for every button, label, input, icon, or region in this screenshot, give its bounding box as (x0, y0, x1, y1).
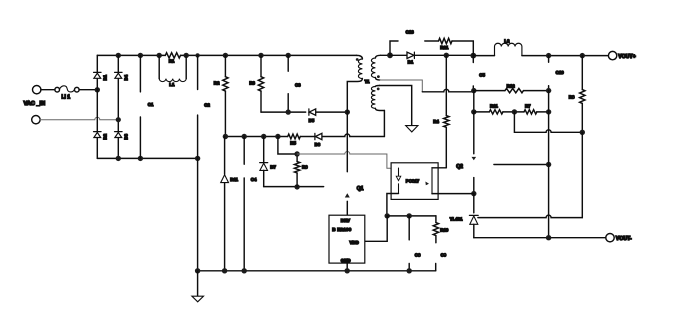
terminal VOUT- (606, 234, 614, 242)
wire Q1 source to IC DRV pin (346, 201, 348, 215)
capacitor C10 (548, 56, 550, 91)
diode D11 (triangle) (221, 175, 229, 183)
svg-text:B E2100: B E2100 (332, 227, 352, 232)
wire D1 anode (390, 54, 407, 56)
node R4 top (444, 53, 449, 58)
wire aux rail y136 (R2 bottom to D6 to aux winding, hop over Q1 drain line) (225, 134, 384, 137)
svg-text:PC817: PC817 (406, 179, 420, 184)
transistor Q2 (source line) (473, 178, 475, 194)
svg-text:R5: R5 (290, 141, 296, 146)
svg-text:C5: C5 (479, 72, 485, 77)
svg-text:L2: L2 (504, 39, 510, 44)
wire bottom rail (198, 270, 436, 272)
wire VOUT- rail (474, 237, 606, 239)
svg-text:VOUT-: VOUT- (616, 236, 632, 242)
capacitor C9 (435, 264, 437, 271)
transformer T1 secondary winding 1 (371, 55, 380, 80)
node aux rail / C4 (242, 134, 247, 139)
bridge right column wire (117, 55, 119, 158)
diode D5 (309, 109, 316, 115)
svg-text:T1: T1 (365, 79, 371, 84)
svg-text:D6: D6 (315, 142, 321, 147)
wire aux winding lead down (383, 111, 385, 137)
svg-text:R11: R11 (490, 103, 498, 108)
wire terminal2 to bridge right column (hop over left column) (40, 117, 118, 119)
node Q2 source / opto emitter (471, 191, 476, 196)
wire x548 column (R12 node to VOUT- rail) (548, 91, 550, 238)
wire R6 branch from aux rail (278, 137, 297, 155)
svg-text:R7: R7 (525, 103, 531, 108)
node top rail / R3 (258, 53, 263, 58)
fuse LI1 (55, 86, 79, 92)
terminal VOUT+ (608, 51, 616, 59)
wire secondary2 top to secondary ground (380, 86, 412, 126)
node top rail / L1 right (184, 53, 189, 58)
resistor R21 (439, 38, 452, 43)
svg-text:C1: C1 (148, 102, 154, 107)
svg-text:C6: C6 (415, 252, 421, 257)
resistor R10 (433, 216, 438, 243)
ground (secondary, open arrow) (406, 126, 418, 132)
optocoupler U2 box (391, 163, 438, 200)
svg-text:D2: D2 (103, 133, 108, 139)
svg-text:C13: C13 (406, 30, 415, 35)
wire VOUT+ rail with L2 (473, 55, 608, 57)
svg-text:C2: C2 (204, 103, 210, 108)
svg-text:D7: D7 (270, 164, 276, 169)
wire IC GND pin (346, 263, 348, 271)
node aux rail / D7 (261, 134, 266, 139)
svg-text:R2: R2 (214, 80, 220, 85)
node R6 top / gate wire (294, 151, 299, 156)
wire top rail right of R1 to transformer primary (181, 54, 357, 56)
secondary1 phase dot (377, 75, 380, 78)
resistor R2 (223, 55, 228, 136)
node R7 right / C10 column (546, 109, 551, 114)
svg-text:D11: D11 (230, 177, 238, 182)
svg-text:VOUT+: VOUT+ (618, 54, 635, 60)
transistor Q2 (drain line) (473, 112, 475, 154)
capacitor C5 (472, 56, 474, 91)
svg-text:C4: C4 (251, 177, 257, 182)
wire D1 cathode to L2 node (414, 54, 473, 56)
capacitor C6 (408, 216, 410, 271)
node bridge bottom / C2 column (195, 156, 200, 161)
svg-text:TL431: TL431 (450, 217, 463, 222)
opto transistor bar right (431, 168, 433, 194)
svg-text:C3: C3 (295, 82, 301, 87)
wire R8 bottom down to TL431 ref row (478, 132, 582, 217)
wire top rail left segment (97, 54, 165, 56)
wire secondary1 top to D1 node (381, 54, 391, 56)
diode D6 (315, 133, 322, 139)
svg-text:R8: R8 (569, 95, 575, 100)
node top rail / C1 (138, 53, 143, 58)
node R8 top (580, 53, 585, 58)
opto LED bar left (398, 168, 400, 194)
node snubber right / C5 / L2 (470, 53, 476, 59)
svg-text:C9: C9 (441, 252, 447, 257)
svg-text:DRV: DRV (341, 218, 350, 223)
node bridge bottom / C1 (138, 156, 143, 161)
opto LED triangle (396, 176, 401, 180)
diode D7 (260, 137, 268, 187)
wire opto collector to R4 (432, 167, 446, 169)
node bottom rail / D11 (222, 268, 227, 273)
wire secondary1 bottom to feedback node (gray, hop over R4) (380, 80, 423, 92)
svg-text:VAC _IN: VAC _IN (24, 101, 46, 107)
wire feedback row y215.9 (387, 215, 436, 217)
node VOUT- rail / x548 column (546, 235, 551, 240)
resistor R4 (444, 55, 449, 167)
node top rail / R2 (223, 53, 228, 58)
svg-text:R6: R6 (302, 164, 308, 169)
svg-text:Q1: Q1 (357, 186, 364, 192)
diode D1 (output rectifier) (407, 52, 414, 58)
capacitor C3 (287, 55, 289, 112)
svg-text:D1: D1 (103, 74, 108, 80)
bridge left column wire (96, 55, 98, 158)
inductor L1 (parallel with R1) (159, 55, 186, 81)
svg-text:LI 1: LI 1 (62, 95, 71, 101)
diode D1 (bridge left top) (94, 72, 101, 78)
resistor R12 (505, 88, 523, 92)
opto arrow (425, 182, 429, 186)
terminal VAC input bottom (32, 116, 40, 124)
node D5 wire / primary return column (345, 109, 350, 114)
node bridge right column / VAC2 wire (116, 117, 121, 122)
wire bridge bottom rail (97, 157, 197, 159)
node VDD junction (385, 213, 390, 218)
node bottom rail / C4 (242, 268, 247, 273)
node bottom rail / ground (195, 268, 200, 273)
ground (primary, open arrow) (192, 271, 204, 302)
diode D3 (bridge right bottom) (115, 132, 122, 138)
node R11 left / Q2 drain (471, 109, 476, 114)
node C10 top (546, 53, 551, 58)
svg-text:D3: D3 (124, 133, 129, 139)
svg-text:R21: R21 (440, 45, 449, 50)
resistor R8 (580, 56, 585, 133)
diode D11 column (224, 137, 226, 271)
svg-text:R3: R3 (249, 80, 255, 85)
svg-text:R10: R10 (440, 228, 449, 233)
node top rail / C3 (286, 53, 291, 58)
node top rail / bridge right column (116, 53, 121, 58)
resistor R5 (288, 134, 301, 139)
wire sec1 lead y91.8 (422, 89, 474, 92)
svg-text:D5: D5 (309, 118, 315, 123)
node R11/R7 junction (512, 109, 517, 114)
wire terminal1 to fuse (41, 89, 55, 91)
svg-text:C10: C10 (556, 70, 565, 75)
capacitor C1 (139, 55, 141, 158)
node R8 bottom (580, 130, 585, 135)
wire D7/R6 bottom row (264, 186, 324, 188)
node aux rail / R6 branch (275, 134, 280, 139)
capacitor C2 (197, 55, 199, 270)
wire Q2 gate row (494, 164, 549, 166)
svg-text:GND: GND (341, 258, 351, 263)
node bottom rail / C6 (407, 268, 412, 273)
resistor R11 (489, 110, 503, 114)
wire Q2 source to TL431 (473, 194, 475, 213)
node fuse/bridge junction (95, 87, 100, 92)
svg-text:Q2: Q2 (456, 164, 463, 170)
wire R11/R7 junction down and right to R8 bottom (hop over x548) (514, 112, 582, 132)
diode D2 (bridge left bottom) (94, 132, 101, 138)
node R12 right / C10 bottom (546, 88, 551, 93)
TL431 U3 (469, 215, 478, 237)
svg-text:D4: D4 (124, 74, 129, 80)
wire VDD node down-left to IC VDD pin (365, 216, 387, 241)
svg-text:D1: D1 (408, 60, 414, 65)
resistor R6 (294, 154, 299, 187)
node gate row / x548 column (546, 162, 551, 167)
wire gate row to optocoupler (hop over Q1 column) (297, 152, 398, 169)
primary phase dot (356, 58, 359, 61)
node bridge bottom / right column (116, 156, 121, 161)
diode D4 (bridge right top) (115, 72, 122, 78)
wire fuse to bridge (79, 89, 97, 91)
node top rail / C2 (195, 53, 199, 57)
wire Q1 drain column (346, 112, 348, 172)
node R6 bottom (294, 184, 299, 189)
node C3 / D5 wire (286, 109, 291, 114)
node aux rail / R2 (223, 134, 228, 139)
inductor L2 (495, 43, 522, 55)
node bottom rail / IC GND (345, 268, 350, 273)
wire opto cathode down to VDD node (387, 194, 399, 216)
svg-text:L1: L1 (169, 82, 175, 87)
transistor Q1 (arrow) (345, 193, 350, 197)
node C6 top (407, 213, 412, 218)
capacitor C4 (243, 137, 245, 271)
node top rail / L1 left (157, 53, 162, 58)
IC U1 box (329, 215, 365, 263)
svg-text:R12: R12 (507, 83, 516, 88)
resistor R3 (258, 55, 263, 112)
wire snubber right leg (452, 41, 473, 55)
svg-text:R1: R1 (169, 59, 175, 64)
wire opto emitter to Q2 source (432, 193, 474, 195)
wire column x473.8 down to R11 row (473, 91, 475, 112)
node secondary1 / snubber (387, 52, 393, 58)
snubber capacitor C13 (390, 41, 439, 55)
wire D5 row (261, 111, 346, 113)
terminal VAC input top (33, 86, 41, 94)
resistor R11 row (474, 111, 549, 113)
svg-text:R4: R4 (433, 119, 439, 124)
transistor Q2 (arrow down) (472, 157, 477, 160)
resistor R1 (165, 53, 180, 58)
secondary2 phase dot (377, 88, 380, 91)
svg-text:VDD: VDD (350, 240, 359, 245)
resistor R12 row (474, 90, 549, 92)
transformer T1 secondary winding 2 (aux) (371, 86, 384, 111)
transformer T1 primary winding (347, 55, 362, 112)
node sec1 feedback / R12 left (471, 88, 476, 93)
resistor R7 (524, 110, 537, 114)
